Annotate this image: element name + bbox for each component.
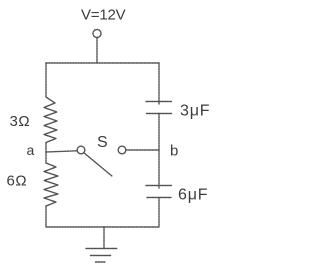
ground (86, 249, 117, 263)
svg-text:3μF: 3μF (180, 103, 210, 120)
svg-text:V=12V: V=12V (81, 7, 126, 24)
wire bottom rail (46, 226, 159, 228)
wire right rail middle (158, 114, 160, 189)
svg-text:a: a (27, 142, 35, 158)
resistor 3Ω (44, 97, 57, 143)
wire switch to node b (126, 149, 159, 151)
terminal V (93, 30, 101, 38)
wire left rail upper (45, 63, 47, 97)
wire supply stub (96, 38, 98, 64)
svg-text:3Ω: 3Ω (10, 113, 31, 130)
switch S contact right (118, 146, 126, 154)
svg-text:6Ω: 6Ω (7, 173, 28, 190)
wire ground stub (103, 227, 105, 249)
wire 3Ω to node a (45, 143, 47, 152)
wire right rail lower (158, 198, 160, 228)
wire top rail (46, 62, 159, 64)
svg-text:S: S (97, 134, 108, 151)
wire left rail lower (45, 206, 47, 227)
switch S contact left (77, 146, 85, 154)
wire right rail upper (158, 63, 160, 104)
node a (46, 151, 77, 152)
capacitor 3µF (146, 102, 172, 114)
wire left rail middle (45, 152, 47, 163)
resistor 6Ω (44, 163, 58, 206)
svg-text:b: b (170, 143, 178, 160)
svg-text:6μF: 6μF (178, 187, 208, 204)
capacitor 6µF (146, 186, 172, 198)
switch S blade (84, 153, 112, 177)
